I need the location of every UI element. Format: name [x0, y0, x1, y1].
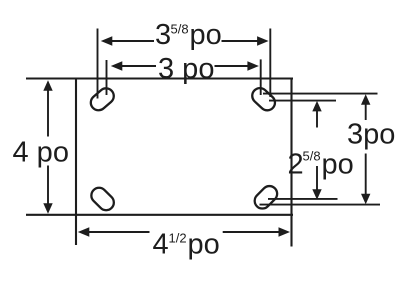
svg-text:5/8: 5/8	[303, 149, 321, 164]
svg-text:4 po: 4 po	[13, 136, 69, 168]
svg-text:4: 4	[153, 228, 169, 260]
svg-text:3: 3	[155, 19, 171, 51]
svg-text:5/8: 5/8	[171, 22, 189, 37]
svg-text:2: 2	[288, 149, 304, 181]
svg-text:3 po: 3 po	[158, 53, 214, 85]
svg-text:po: po	[190, 19, 222, 51]
svg-text:po: po	[188, 228, 220, 260]
svg-text:3po: 3po	[347, 119, 395, 151]
svg-text:po: po	[322, 149, 354, 181]
svg-text:1/2: 1/2	[169, 231, 187, 246]
